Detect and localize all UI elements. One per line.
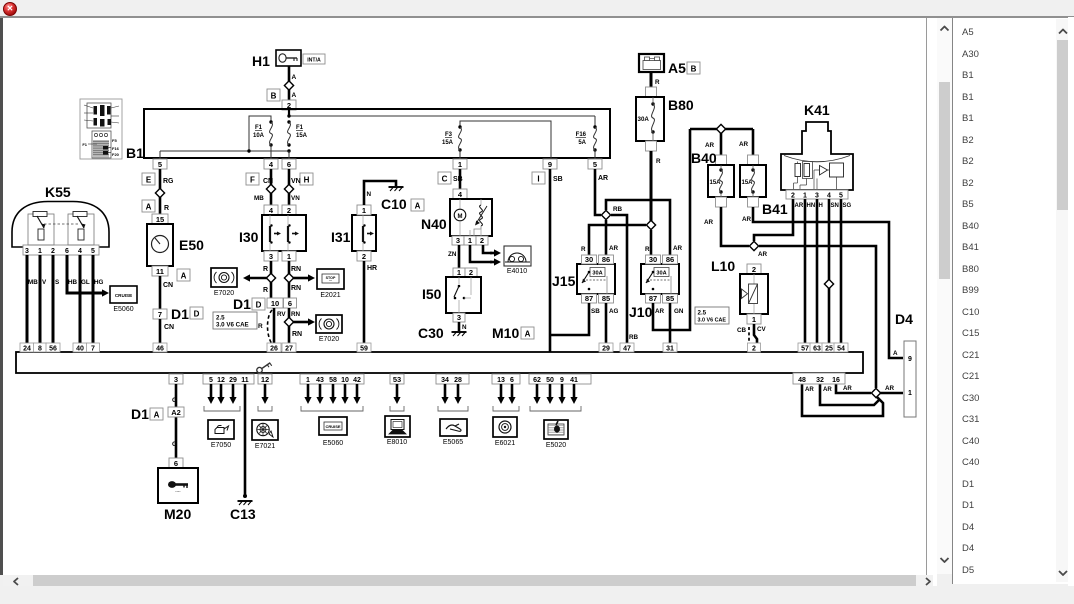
pin 11 of E50 — [152, 266, 168, 276]
wire AR splice to D4 splice — [759, 246, 876, 388]
pin 85 of J10 — [663, 294, 678, 303]
svg-text:4: 4 — [78, 248, 82, 255]
svg-text:R: R — [164, 205, 169, 212]
B1 internal drop to F16 — [594, 116, 596, 127]
bracket 62-41 — [530, 406, 581, 411]
svg-text:RV: RV — [277, 311, 286, 318]
label RN — [291, 311, 301, 318]
svg-text:···: ··· — [329, 279, 332, 283]
wire SN K41-4 to strip 25 — [828, 199, 831, 352]
label A — [292, 74, 297, 81]
wire R splice to J15-30 — [589, 225, 646, 255]
svg-text:13: 13 — [497, 377, 505, 384]
arrows strip 13 6 — [497, 384, 515, 404]
wire AR strip 16 to splice — [836, 384, 871, 393]
pin 2 of I30 — [282, 205, 296, 215]
pin 30 of J15 — [582, 255, 597, 264]
svg-text:6: 6 — [287, 160, 291, 169]
svg-text:AR: AR — [885, 385, 895, 392]
terminal 29 — [599, 343, 613, 353]
wire N I31-1 to ground C10 — [364, 181, 396, 205]
terminal 26 — [267, 343, 281, 353]
svg-text:15A: 15A — [742, 180, 754, 186]
svg-text:V: V — [42, 279, 47, 286]
connector D1 label — [131, 406, 163, 422]
pin 5 of B1 — [153, 159, 167, 169]
svg-text:F16: F16 — [112, 146, 120, 151]
pin 3 of N40 — [452, 236, 464, 245]
label AR — [885, 385, 895, 392]
svg-text:AR: AR — [739, 141, 749, 148]
arrow to E2021 — [293, 274, 315, 281]
svg-text:K55: K55 — [45, 184, 71, 200]
svg-text:R: R — [656, 158, 661, 165]
fuse F1 15A — [287, 120, 307, 146]
pin group 1 43 58 10 42 — [300, 374, 364, 384]
svg-text:SG: SG — [843, 203, 852, 209]
svg-text:CV: CV — [757, 326, 767, 333]
pin 10 of D1 — [267, 298, 283, 308]
instrument icon E7050 — [208, 420, 234, 449]
svg-text:A: A — [146, 202, 152, 211]
svg-text:1: 1 — [803, 192, 807, 199]
wire VN B1-6 to I30 — [288, 169, 291, 205]
ground C10 — [381, 187, 424, 212]
pin 1 of I31 — [357, 205, 371, 215]
label H — [819, 203, 823, 209]
splice on CN/MB wire — [266, 184, 275, 193]
fuse F16 5A — [576, 125, 597, 151]
svg-text:5: 5 — [209, 377, 213, 384]
svg-text:A5: A5 — [668, 60, 686, 76]
wire MB K55-3 to strip 24 — [26, 255, 29, 352]
pin 1 of L10 — [747, 314, 761, 324]
wire SB J15-87 to M10 wire — [550, 303, 589, 335]
svg-text:57: 57 — [801, 346, 809, 353]
svg-text:15A: 15A — [296, 133, 308, 139]
svg-text:J15: J15 — [552, 273, 576, 289]
connector M10 label — [492, 325, 534, 341]
bracket 34-28 — [438, 406, 468, 411]
wire H K41-3 to strip 63 — [816, 199, 819, 352]
splice on RN wire — [284, 273, 293, 282]
ground C30 — [418, 325, 467, 341]
svg-text:2: 2 — [362, 252, 366, 261]
connector pin of B40 bottom — [716, 197, 727, 207]
wire CV L10-1 to strip 2 — [754, 324, 757, 352]
svg-text:42: 42 — [353, 377, 361, 384]
connector pin of B40 — [716, 155, 727, 165]
svg-text:C30: C30 — [418, 325, 444, 341]
svg-text:1: 1 — [468, 236, 472, 245]
label AR — [673, 245, 683, 252]
svg-text:25: 25 — [825, 346, 833, 353]
svg-text:M10: M10 — [492, 325, 519, 341]
svg-text:10: 10 — [341, 377, 349, 384]
label N — [367, 191, 372, 198]
splice RB node — [601, 210, 610, 219]
label A — [893, 350, 898, 357]
svg-text:I31: I31 — [331, 229, 351, 245]
label CB — [737, 327, 747, 334]
label SN — [831, 203, 839, 209]
pin 86 of J15 — [599, 255, 614, 264]
connector icon E4010 — [504, 246, 531, 275]
pin group 5 12 29 11 — [203, 374, 254, 384]
svg-text:2: 2 — [791, 192, 795, 199]
svg-text:E7021: E7021 — [255, 443, 275, 450]
svg-text:E8010: E8010 — [387, 439, 407, 446]
pin 6 of D1 — [284, 298, 297, 308]
terminal 40 — [73, 343, 87, 353]
svg-text:I30: I30 — [239, 229, 259, 245]
svg-text:H1: H1 — [252, 53, 270, 69]
connector pin of B80 bottom — [646, 141, 657, 151]
svg-text:32: 32 — [816, 377, 824, 384]
node B — [267, 89, 280, 101]
label CN — [164, 324, 174, 331]
wire ZN N40-3 to I50 — [458, 245, 461, 268]
pin 2 of I31 — [357, 251, 371, 261]
arrows strip 62 50 9 41 — [533, 384, 577, 404]
wire SG K41-5 to strip 54 — [840, 199, 843, 352]
label AR — [598, 175, 608, 182]
svg-text:4: 4 — [827, 192, 831, 199]
svg-text:5: 5 — [839, 192, 843, 199]
label R — [645, 246, 650, 253]
battery A5 — [639, 54, 700, 76]
label AR — [739, 141, 749, 148]
svg-text:3: 3 — [456, 236, 460, 245]
heater blower N40 — [421, 199, 492, 236]
svg-text:56: 56 — [49, 346, 57, 353]
pin 85 of J15 — [599, 294, 614, 303]
label SB — [453, 176, 463, 183]
bracket 1-42 — [301, 406, 363, 411]
svg-text:CB: CB — [737, 327, 747, 334]
arrows strip 5 12 29 — [207, 384, 236, 404]
svg-text:2: 2 — [287, 206, 291, 215]
svg-text:6: 6 — [65, 248, 69, 255]
svg-text:B40: B40 — [691, 150, 717, 166]
svg-text:15A: 15A — [710, 180, 722, 186]
svg-text:1: 1 — [908, 390, 912, 397]
svg-text:85: 85 — [666, 294, 674, 303]
wire strip 11 to ground C13 — [243, 384, 247, 498]
svg-text:C10: C10 — [381, 196, 407, 212]
svg-text:A: A — [181, 271, 187, 280]
label ZN — [448, 251, 457, 258]
pin group 62 50 9 41 — [529, 374, 591, 384]
label N — [462, 324, 467, 331]
pin 1 of I50 — [453, 268, 465, 277]
svg-text:RB: RB — [613, 206, 623, 213]
label R — [581, 246, 586, 253]
clutch switch I31 — [331, 215, 376, 251]
junction dots — [247, 114, 290, 152]
label CV — [757, 326, 767, 333]
arrows strip 1-42 — [304, 384, 360, 404]
svg-text:A: A — [292, 74, 297, 81]
fuse box B1 legend icon — [80, 99, 122, 159]
terminal 54 — [834, 343, 848, 353]
svg-text:1: 1 — [458, 160, 462, 169]
node H — [300, 173, 313, 185]
svg-text:15A: 15A — [442, 140, 454, 146]
svg-text:A: A — [525, 329, 531, 338]
svg-text:9: 9 — [560, 377, 564, 384]
splice on wire A — [284, 81, 293, 90]
svg-text:AR: AR — [609, 245, 619, 252]
label RN — [291, 266, 301, 273]
label SG — [843, 203, 852, 209]
svg-text:R: R — [258, 323, 263, 330]
wire HR I31-2 to strip 59 — [363, 261, 366, 352]
splice AR node at L10 — [749, 241, 758, 250]
label AR — [609, 245, 619, 252]
svg-text:27: 27 — [285, 346, 293, 353]
arrow strip 12 — [261, 384, 268, 404]
fuse holder B40 — [691, 150, 734, 197]
svg-text:E5060: E5060 — [113, 306, 133, 313]
svg-text:2.5: 2.5 — [216, 315, 225, 322]
brake switch I30 — [239, 215, 306, 251]
wire GL K55-4 to strip 40 — [79, 255, 82, 352]
svg-text:R: R — [263, 287, 268, 294]
svg-text:C13: C13 — [230, 506, 256, 522]
connector D4 — [895, 311, 916, 417]
pin 87 of J10 — [646, 294, 661, 303]
svg-text:N: N — [367, 191, 372, 198]
label R — [263, 287, 268, 294]
svg-text:R: R — [645, 246, 650, 253]
fuse F1 10A — [253, 120, 273, 146]
variant dashed wire R — [258, 310, 272, 344]
pin 12 below strip — [258, 374, 272, 384]
variant box 2.5/3.0 V6 CAE — [695, 307, 729, 324]
wire AR strip 48 to splice — [802, 384, 883, 416]
svg-text:E4010: E4010 — [507, 268, 527, 275]
svg-text:AR: AR — [598, 175, 608, 182]
wire RN I30-1 down — [288, 261, 291, 298]
svg-text:I50: I50 — [422, 286, 442, 302]
svg-text:GL: GL — [81, 279, 90, 286]
svg-text:AR: AR — [655, 308, 665, 315]
label R — [164, 205, 169, 212]
svg-text:ZN: ZN — [448, 251, 457, 258]
svg-text:INT/A: INT/A — [307, 57, 321, 63]
svg-text:40: 40 — [76, 346, 84, 353]
cruise module icon E5060 — [319, 417, 347, 447]
pin 87 of J15 — [582, 294, 597, 303]
wheel icon E7021 — [252, 420, 278, 450]
label GL — [81, 279, 90, 286]
svg-text:R: R — [581, 246, 586, 253]
svg-text:12: 12 — [217, 377, 225, 384]
svg-text:7: 7 — [158, 310, 162, 319]
svg-text:F1: F1 — [296, 125, 304, 131]
svg-text:1: 1 — [38, 248, 42, 255]
svg-text:RN: RN — [291, 285, 301, 292]
svg-text:2.5: 2.5 — [698, 310, 707, 317]
svg-text:I: I — [537, 174, 539, 183]
svg-text:C: C — [442, 174, 448, 183]
svg-text:K41: K41 — [804, 102, 830, 118]
splice on RG wire — [155, 188, 164, 197]
node A — [177, 269, 190, 281]
relay J10 — [629, 264, 679, 320]
svg-text:59: 59 — [360, 346, 368, 353]
svg-text:10A: 10A — [253, 133, 265, 139]
pin A2 of D1 — [168, 407, 184, 417]
terminal 24 — [20, 343, 34, 353]
label R — [655, 79, 660, 86]
svg-text:AR: AR — [805, 386, 814, 393]
svg-text:GN: GN — [674, 308, 684, 315]
label HR — [367, 265, 377, 272]
label AR — [758, 251, 768, 258]
wire RB splice to strip 47 — [611, 215, 627, 352]
svg-text:7: 7 — [91, 346, 95, 353]
pin 4 of I30 — [264, 205, 278, 215]
svg-text:1: 1 — [306, 377, 310, 384]
svg-text:3.0 V6 CAE: 3.0 V6 CAE — [216, 322, 249, 329]
svg-text:6: 6 — [174, 459, 178, 468]
pin group 48 32 16 — [793, 373, 845, 384]
svg-text:2: 2 — [752, 265, 756, 274]
svg-text:1: 1 — [362, 206, 366, 215]
wire A from H1 to B1 pin 2 — [288, 66, 291, 100]
clutch icon E6021 — [493, 417, 517, 447]
svg-text:CN: CN — [164, 324, 174, 331]
stop module E2021 — [317, 269, 344, 299]
wire CN B1-4 to I30 — [270, 169, 273, 205]
F1 wires to pins — [160, 145, 595, 159]
label AR — [704, 219, 714, 226]
svg-text:CRUISE: CRUISE — [325, 424, 340, 429]
svg-text:3: 3 — [457, 313, 461, 322]
bracket 12 — [258, 406, 272, 411]
label MB — [254, 195, 264, 202]
svg-text:16: 16 — [832, 377, 840, 384]
pin group 13 6 — [492, 374, 520, 384]
svg-text:B80: B80 — [668, 97, 694, 113]
svg-text:29: 29 — [229, 377, 237, 384]
label RN — [291, 285, 301, 292]
pin 3 below strip — [169, 374, 183, 384]
svg-text:87: 87 — [585, 294, 593, 303]
svg-text:D1: D1 — [233, 296, 251, 312]
svg-text:47: 47 — [623, 346, 631, 353]
svg-text:SN: SN — [831, 203, 839, 209]
brake pedal switch I50 — [422, 277, 481, 313]
svg-text:MB: MB — [28, 279, 38, 286]
svg-text:D: D — [256, 300, 262, 309]
svg-text:34: 34 — [441, 377, 449, 384]
svg-text:5A: 5A — [578, 140, 586, 146]
wire V K55-1 to strip 8 — [39, 255, 42, 352]
ignition switch H1 — [252, 50, 325, 69]
wire GN J10-85 to strip 31 — [669, 303, 672, 352]
svg-text:50: 50 — [546, 377, 554, 384]
svg-text:54: 54 — [837, 346, 845, 353]
svg-text:3: 3 — [269, 252, 273, 261]
label A — [292, 92, 297, 99]
arrow to E7020 left — [243, 274, 267, 281]
svg-text:N: N — [462, 324, 467, 331]
svg-text:HR: HR — [367, 265, 377, 272]
svg-text:AR: AR — [795, 203, 804, 209]
pin 30 of J10 — [646, 255, 661, 264]
connector D1 label — [171, 306, 203, 322]
svg-text:3.0 V6 CAE: 3.0 V6 CAE — [698, 318, 727, 324]
wire AG J15-85 to strip 29 — [605, 303, 608, 352]
terminal 46 — [153, 343, 167, 353]
svg-text:2: 2 — [469, 268, 473, 277]
diagnostic socket M20 — [158, 468, 198, 522]
svg-text:58: 58 — [329, 377, 337, 384]
svg-text:H: H — [304, 175, 310, 184]
svg-text:F1: F1 — [255, 125, 263, 131]
svg-text:63: 63 — [813, 346, 821, 353]
wire R splice to J10-30 — [650, 230, 653, 255]
svg-text:31: 31 — [666, 346, 674, 353]
fuse holder B41 — [740, 165, 788, 217]
svg-text:A: A — [292, 92, 297, 99]
pin 6 of M20 — [169, 458, 183, 468]
svg-text:2: 2 — [51, 248, 55, 255]
stop lights icon E7020 — [211, 268, 237, 297]
svg-text:87: 87 — [649, 294, 657, 303]
wire AR strip 32 to splice — [820, 384, 879, 405]
svg-text:E7050: E7050 — [211, 442, 231, 449]
svg-text:G: G — [172, 397, 177, 404]
svg-text:AR: AR — [758, 251, 768, 258]
solenoid valve L10 — [711, 258, 768, 314]
pin 6 of B1 — [282, 159, 296, 169]
pin 5 of B1 right — [588, 159, 602, 169]
wire RN D1-6 down — [288, 308, 291, 352]
svg-text:11: 11 — [156, 267, 164, 276]
wire AR K41-2 to splice — [754, 199, 793, 241]
handbrake icon E5065 — [440, 419, 467, 446]
svg-text:F20: F20 — [112, 152, 120, 157]
svg-text:9: 9 — [908, 356, 912, 363]
svg-text:86: 86 — [666, 255, 674, 264]
label AR — [823, 386, 832, 393]
connector pin of B80 — [646, 87, 657, 97]
splice on SN wire — [824, 279, 833, 288]
wire AR splice to J10-86 — [606, 200, 670, 255]
splice on R wire — [266, 273, 275, 282]
svg-text:6: 6 — [288, 299, 292, 308]
label VN — [291, 178, 301, 185]
label SB — [591, 308, 600, 315]
label MB — [28, 279, 38, 286]
label CN — [163, 282, 173, 289]
cruise control unit K41 — [781, 102, 853, 199]
svg-text:AR: AR — [673, 245, 683, 252]
splice at B40 feed — [716, 124, 725, 133]
svg-text:MB: MB — [254, 195, 264, 202]
label G — [172, 397, 177, 404]
pin 9 of B1 — [543, 159, 557, 169]
node E — [142, 173, 155, 185]
svg-text:B1: B1 — [126, 145, 144, 161]
svg-text:HG: HG — [94, 279, 104, 286]
svg-text:12: 12 — [261, 375, 269, 384]
wire SB B1-1 to N40 — [459, 169, 462, 189]
